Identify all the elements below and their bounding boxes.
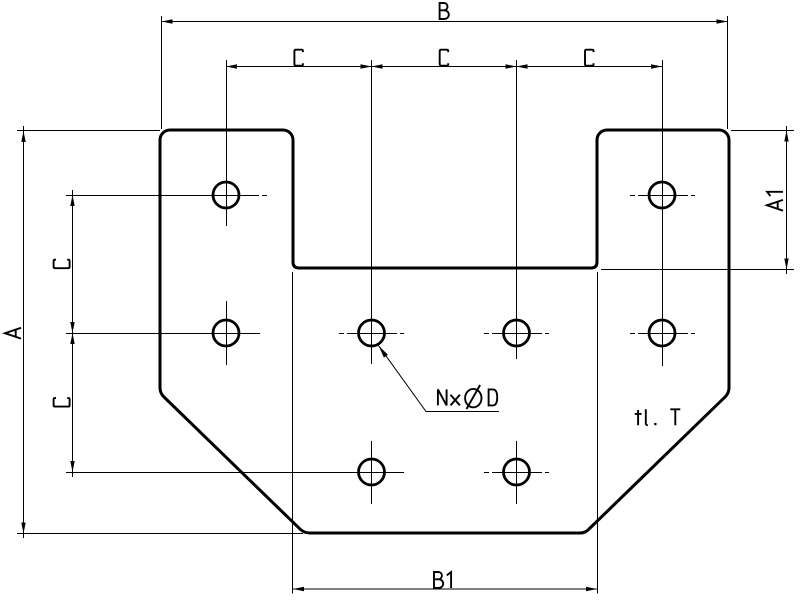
dimension A (left overall height) bbox=[5, 126, 303, 538]
hole H1 (226,195) bbox=[213, 182, 239, 208]
dimension C (left lower, row2 to row3) bbox=[54, 333, 75, 477]
hole H8 centerline horizontal bbox=[484, 472, 549, 474]
plate outline bbox=[160, 130, 729, 533]
hole H7 centerline vertical bbox=[371, 441, 373, 504]
hole H6 (662,333) bbox=[649, 320, 675, 346]
hole H3 centerline horizontal (merged with left C extension) bbox=[66, 333, 260, 335]
hole H3 centerline vertical bbox=[226, 301, 228, 365]
hole H5 centerline horizontal bbox=[484, 333, 549, 335]
hole H1 centerline vertical (merged with top C extension) bbox=[226, 60, 228, 226]
hole H4 centerline horizontal bbox=[339, 333, 404, 335]
leader NxOD (points to hole H4) bbox=[379, 346, 500, 412]
dimension C chain (top, three segments) bbox=[226, 50, 662, 69]
dimension A1 (right, tab height) bbox=[601, 126, 794, 274]
dimension C (left upper, row1 to row2) bbox=[54, 190, 75, 338]
hole H6 centerline horizontal bbox=[630, 333, 695, 335]
hole H4 (371.5,333) bbox=[359, 320, 385, 346]
hole H8 centerline vertical bbox=[516, 441, 518, 504]
dimension B1 (bottom, notch width) bbox=[293, 272, 598, 594]
hole H7 (371.5,472) bbox=[359, 459, 385, 485]
hole H3 (226,333) bbox=[213, 320, 239, 346]
hole H2 centerline vertical (merged with top C extension, continuous to row 2) bbox=[662, 60, 664, 366]
hole H7 centerline horizontal (merged with left C2 extension) bbox=[66, 472, 404, 474]
hole H4 centerline vertical (merged with top C extension) bbox=[371, 60, 373, 364]
hole H5 (516.5,333) bbox=[504, 320, 530, 346]
hole H1 centerline horizontal (merged with left C extension) bbox=[66, 195, 267, 197]
hole H8 (516.5,472) bbox=[504, 459, 530, 485]
dimension B (top overall width) bbox=[162, 3, 728, 129]
label tl. T (plate thickness) bbox=[635, 409, 681, 425]
hole H2 centerline horizontal bbox=[630, 195, 695, 197]
hole H5 centerline vertical (merged with top C extension) bbox=[516, 60, 518, 359]
hole H2 (662,195) bbox=[649, 182, 675, 208]
